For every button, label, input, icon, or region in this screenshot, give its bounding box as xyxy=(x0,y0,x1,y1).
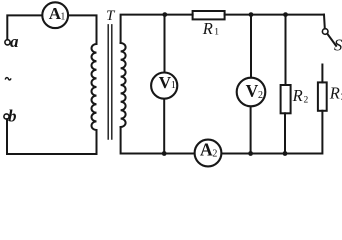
node: top junction V1 xyxy=(162,12,167,17)
wire: V1 branch lower xyxy=(163,100,165,154)
svg-text:2: 2 xyxy=(212,148,217,159)
wire: terminal a up to top-left corner xyxy=(7,15,41,39)
AC source tilde xyxy=(5,78,11,80)
svg-text:V: V xyxy=(246,81,259,101)
svg-text:A: A xyxy=(200,139,213,159)
ammeter A2 xyxy=(195,140,222,167)
svg-text:1: 1 xyxy=(214,27,219,37)
transformer T primary coil xyxy=(91,44,96,130)
svg-text:R: R xyxy=(202,19,213,38)
wire: primary bottom to b terminal xyxy=(7,119,97,154)
node: top junction R2 xyxy=(283,12,288,17)
wire: R3 branch upper xyxy=(321,65,323,83)
wire: R3 branch lower and bottom wire to A2 xyxy=(222,111,322,154)
transformer core xyxy=(108,25,112,139)
wire: secondary top to R1 xyxy=(121,15,193,43)
svg-text:a: a xyxy=(10,32,19,51)
switch S: pivot circle xyxy=(322,29,328,35)
node: bottom junction V1 xyxy=(162,151,167,156)
wire: V2 branch lower xyxy=(250,107,252,154)
wire: R2 branch lower xyxy=(284,113,286,153)
switch S: blade xyxy=(327,34,336,46)
switch S: stem xyxy=(323,15,326,29)
node: bottom junction R2 xyxy=(283,151,288,156)
resistor R1 xyxy=(193,11,225,19)
svg-text:S: S xyxy=(334,36,342,55)
svg-text:1: 1 xyxy=(60,11,65,22)
voltmeter V1 xyxy=(151,73,177,99)
ammeter A1 xyxy=(42,2,68,28)
svg-text:R: R xyxy=(292,86,303,105)
wire: V1 branch upper xyxy=(164,15,166,72)
wire: A1 to transformer primary top xyxy=(69,15,96,44)
terminal a xyxy=(5,40,10,45)
resistor R3 xyxy=(318,82,327,110)
svg-text:V: V xyxy=(159,73,172,92)
wire: R1 to top-right corner xyxy=(225,14,324,16)
terminal b xyxy=(4,114,9,119)
resistor R2 xyxy=(281,85,291,113)
voltmeter V2 xyxy=(237,78,266,107)
wire: V2 branch upper xyxy=(250,15,252,78)
svg-text:R: R xyxy=(329,83,340,102)
svg-text:1: 1 xyxy=(171,80,176,91)
node: bottom junction V2 xyxy=(248,151,253,156)
node: top junction V2 xyxy=(249,12,254,17)
transformer T secondary coil xyxy=(121,43,126,127)
wire: R2 branch upper xyxy=(285,15,287,85)
svg-text:2: 2 xyxy=(304,96,309,106)
svg-text:b: b xyxy=(8,107,17,126)
wire: A2 to secondary bottom xyxy=(121,127,194,154)
svg-text:2: 2 xyxy=(258,90,263,101)
